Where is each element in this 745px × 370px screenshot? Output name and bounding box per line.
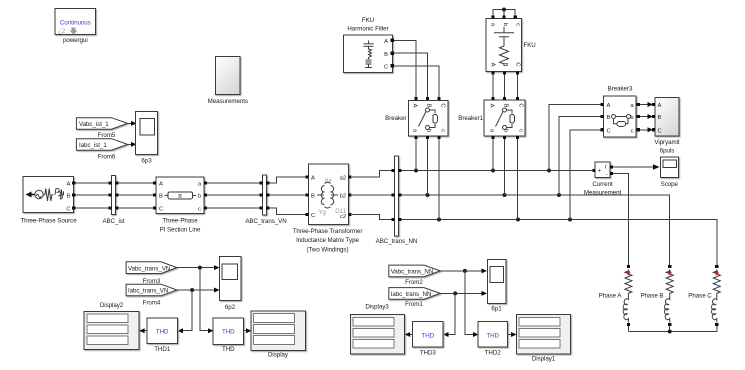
- svg-text:B: B: [384, 52, 388, 58]
- svg-text:Breaker3: Breaker3: [608, 86, 633, 93]
- svg-text:π: π: [178, 193, 182, 200]
- THD1 block: [147, 318, 178, 353]
- svg-text:c: c: [515, 23, 521, 26]
- svg-text:ABC_trans_VN: ABC_trans_VN: [245, 218, 286, 225]
- svg-text:c: c: [440, 129, 446, 132]
- wire From5 to 6p3: [128, 122, 132, 124]
- svg-text:A: A: [490, 63, 496, 67]
- wire A bus to transformer (steps up): [269, 177, 306, 183]
- THD3 block: [413, 322, 443, 357]
- wire row B source to ABC_ist: [75, 194, 110, 196]
- riser row3 to Breaker3 C: [570, 130, 601, 220]
- wire row a PI to ABC_trans_VN: [207, 182, 261, 184]
- svg-text:Inductance Matrix Type: Inductance Matrix Type: [296, 237, 359, 244]
- junction row3 Breaker1 c: [516, 218, 520, 222]
- wire From4 to 6p2: [177, 289, 216, 291]
- wire CM minus to Phase A drop: [613, 174, 628, 265]
- From2 tag Vabc_trans_NN: [389, 265, 440, 286]
- svg-text:Scope: Scope: [661, 181, 679, 188]
- svg-text:C: C: [658, 129, 662, 135]
- svg-text:a2: a2: [340, 176, 346, 182]
- Phase C load branch: [688, 265, 720, 332]
- svg-text:Measurement: Measurement: [584, 190, 622, 197]
- svg-text:A: A: [412, 104, 418, 108]
- svg-text:Breaker: Breaker: [385, 115, 406, 122]
- svg-text:Three-Phase Source: Three-Phase Source: [20, 218, 77, 225]
- junction neutral at Phase B: [668, 330, 672, 334]
- wire C bus to transformer (steps down): [269, 208, 306, 215]
- svg-text:FKU: FKU: [362, 17, 374, 24]
- svg-text:c: c: [518, 129, 524, 132]
- svg-text:Three-Phase Transformer: Three-Phase Transformer: [293, 228, 363, 235]
- neutral bus wire: [628, 331, 716, 333]
- svg-text:THD1: THD1: [154, 346, 171, 353]
- Current Measurement: [584, 162, 622, 196]
- svg-text:Phase B: Phase B: [640, 293, 663, 300]
- svg-text:Iabc_trans_VN: Iabc_trans_VN: [128, 288, 168, 295]
- wire From1 branch down to THD3: [448, 293, 456, 334]
- scope 6p1: [487, 259, 506, 312]
- wire From3 branch down to THD: [200, 268, 210, 331]
- wire THD3 to Display3: [408, 334, 413, 336]
- svg-text:C: C: [518, 103, 524, 107]
- measurement bus ABC_ist: [102, 176, 124, 226]
- svg-text:b2: b2: [340, 194, 346, 200]
- measurement bus ABC_trans_NN: [376, 156, 418, 245]
- svg-text:Vabc_trans_VN: Vabc_trans_VN: [128, 265, 170, 272]
- svg-text:PI Section Line: PI Section Line: [160, 227, 201, 234]
- wire THD2 to Display1: [508, 334, 513, 336]
- svg-text:A: A: [607, 103, 611, 109]
- svg-text:Yg: Yg: [318, 209, 326, 216]
- svg-text:(Two Windings): (Two Windings): [307, 247, 349, 254]
- svg-text:A: A: [489, 104, 495, 108]
- wire FKU A down to Breaker1 A: [492, 75, 494, 99]
- wire row C ABC_ist to PI line: [118, 207, 155, 209]
- Scope: [660, 157, 678, 188]
- wire a2 to ABC_trans_NN (steps up): [352, 171, 393, 178]
- svg-text:THD: THD: [422, 332, 435, 339]
- scope 6p3: [136, 112, 158, 165]
- junction row1 Breaker1 a: [491, 169, 495, 173]
- svg-text:C: C: [311, 213, 315, 219]
- THD2 block: [478, 322, 508, 357]
- wire From4 branch down to THD1: [182, 290, 192, 331]
- svg-text:From5: From5: [98, 132, 116, 139]
- junction FKU bracket: [502, 8, 506, 12]
- wire row A source to ABC_ist: [75, 182, 110, 184]
- svg-text:Display1: Display1: [532, 356, 556, 363]
- wire FKU B down to Breaker1 B: [504, 75, 506, 99]
- Breaker1: [458, 97, 525, 139]
- svg-text:ABC_ist: ABC_ist: [102, 218, 124, 225]
- svg-text:B: B: [67, 194, 71, 200]
- svg-text:c: c: [198, 207, 201, 213]
- wire Breaker1 c down to row3: [517, 139, 519, 220]
- wire c2 to ABC_trans_NN (steps down): [352, 215, 393, 220]
- wire row b PI to ABC_trans_VN: [207, 194, 261, 196]
- wire Breaker1 b down to row2: [504, 139, 506, 195]
- wire Breaker c down to row3: [438, 139, 440, 220]
- Display2: [84, 302, 139, 349]
- wire THD1 to Display2: [143, 330, 148, 332]
- Measurements subsystem: [208, 57, 248, 106]
- wire row A ABC_ist to PI line: [118, 182, 155, 184]
- Vipryamit 6puls subsystem: [652, 97, 680, 154]
- svg-text:C: C: [515, 62, 521, 66]
- svg-text:c2: c2: [340, 214, 346, 220]
- From5 tag Vabc_ist_1: [76, 118, 127, 139]
- svg-text:From2: From2: [405, 279, 423, 286]
- svg-text:Vabc_trans_NN: Vabc_trans_NN: [391, 269, 434, 276]
- wire From2 to 6p1: [440, 270, 483, 272]
- wire FKU-HF B to Breaker B: [394, 53, 428, 98]
- svg-text:-: -: [606, 172, 608, 179]
- powergui block: [55, 9, 96, 45]
- svg-text:THD: THD: [486, 332, 499, 339]
- svg-text:+: +: [598, 168, 602, 175]
- svg-text:A: A: [658, 103, 662, 109]
- From6 tag Iabc_ist_1: [76, 139, 127, 161]
- Display1: [516, 315, 570, 363]
- wire FKU-HF C to Breaker C: [394, 66, 439, 98]
- svg-text:Iabc_trans_NN: Iabc_trans_NN: [391, 291, 432, 298]
- svg-text:Vabc_ist_1: Vabc_ist_1: [79, 121, 109, 128]
- junction row2 Breaker b: [426, 193, 430, 197]
- svg-text:Vipryamit: Vipryamit: [654, 139, 680, 146]
- junction From1 wire: [453, 291, 457, 295]
- svg-text:C: C: [159, 207, 163, 213]
- svg-text:THD: THD: [222, 346, 235, 353]
- svg-text:C: C: [440, 103, 446, 107]
- wire From2 branch down to THD2: [465, 271, 475, 335]
- svg-text:C: C: [66, 207, 70, 213]
- svg-text:6p1: 6p1: [491, 306, 502, 313]
- svg-text:Continuous: Continuous: [60, 20, 91, 27]
- svg-text:6puls: 6puls: [660, 148, 675, 155]
- svg-text:¿2: ¿2: [58, 28, 66, 35]
- junction row3 Breaker3 riser: [568, 218, 572, 222]
- junction row3 Breaker c: [437, 218, 441, 222]
- svg-text:Measurements: Measurements: [208, 98, 248, 105]
- wire Breaker a down to row1: [415, 139, 417, 171]
- wire Breaker3 c to Vipryamit C: [640, 129, 650, 131]
- svg-text:ABC_trans_NN: ABC_trans_NN: [376, 238, 418, 245]
- junction row2 Breaker3 riser: [557, 193, 561, 197]
- wire row B ABC_ist to PI line: [118, 194, 155, 196]
- svg-text:b: b: [502, 23, 508, 26]
- svg-text:B: B: [426, 104, 432, 108]
- THD block: [213, 318, 243, 353]
- Breaker3: [600, 86, 640, 138]
- svg-text:6p3: 6p3: [141, 158, 152, 165]
- wire row C source to ABC_ist: [75, 207, 110, 209]
- svg-text:B: B: [311, 194, 315, 200]
- svg-text:A: A: [67, 182, 71, 188]
- svg-text:b: b: [198, 194, 201, 200]
- wire Breaker b down to row2: [427, 139, 429, 195]
- svg-text:Breaker1: Breaker1: [458, 115, 483, 122]
- svg-text:THD3: THD3: [420, 350, 437, 357]
- FKU capacitor filter block: [486, 15, 536, 74]
- svg-text:Harmonic Filter: Harmonic Filter: [347, 26, 388, 33]
- Three-Phase Transformer Inductance Matrix Type: [293, 164, 363, 254]
- svg-text:c: c: [631, 129, 634, 135]
- wire Breaker3 a to Vipryamit A: [640, 104, 650, 106]
- svg-text:From4: From4: [143, 300, 161, 307]
- svg-text:THD: THD: [222, 329, 235, 336]
- scope 6p2: [220, 257, 241, 312]
- wire Breaker3 b to Vipryamit B: [640, 116, 650, 118]
- Three-Phase PI Section Line: [153, 177, 207, 234]
- svg-text:Display2: Display2: [100, 302, 124, 309]
- junction From4 wire: [190, 288, 194, 292]
- wire THD to Display: [243, 330, 247, 332]
- svg-text:B: B: [159, 194, 163, 200]
- svg-text:Display: Display: [268, 352, 289, 359]
- From1 tag Iabc_trans_NN: [389, 288, 440, 308]
- svg-text:From1: From1: [405, 301, 423, 308]
- svg-text:B: B: [503, 104, 509, 108]
- svg-text:Phase A: Phase A: [599, 293, 623, 300]
- svg-text:THD: THD: [156, 329, 169, 336]
- wire From3 to 6p2: [177, 267, 216, 269]
- svg-text:B: B: [607, 115, 611, 121]
- svg-text:B: B: [658, 115, 662, 121]
- junction From3 wire: [198, 266, 202, 270]
- wire row c PI to ABC_trans_VN: [207, 207, 261, 209]
- junction row1 Breaker3 riser: [547, 169, 551, 173]
- svg-text:From6: From6: [98, 154, 116, 161]
- wire b2 to ABC_trans_NN: [352, 194, 393, 196]
- svg-text:Three-Phase: Three-Phase: [162, 218, 198, 225]
- Display3: [351, 304, 405, 355]
- riser row2 to Breaker3 B: [559, 117, 601, 196]
- junction row1 Breaker a: [414, 169, 418, 173]
- wire FKU-HF A to Breaker A: [394, 40, 416, 98]
- svg-text:Phase C: Phase C: [688, 293, 712, 300]
- svg-text:FKU: FKU: [524, 42, 536, 49]
- wire FKU C down to Breaker1 C: [517, 75, 519, 99]
- Display: [251, 311, 305, 359]
- measurement bus ABC_trans_VN: [245, 175, 286, 225]
- wire From1 to 6p1: [440, 292, 483, 294]
- Breaker: [385, 97, 448, 139]
- wire From6 to 6p3: [128, 143, 132, 145]
- wire row3 NN bus to Phase C drop: [401, 220, 717, 265]
- svg-text:A: A: [311, 176, 315, 182]
- wire Breaker1 a down to row1: [492, 139, 494, 171]
- Three-Phase Source: [20, 177, 77, 225]
- svg-text:Display3: Display3: [365, 304, 389, 311]
- junction row2 Breaker1 b: [503, 193, 507, 197]
- wire CM i output to Scope: [613, 166, 655, 168]
- svg-text:Iabc_ist_1: Iabc_ist_1: [79, 142, 107, 149]
- From4 tag Iabc_trans_VN: [126, 284, 177, 306]
- FKU block top bracket: [493, 10, 515, 19]
- svg-text:IM: IM: [325, 178, 332, 185]
- svg-text:A: A: [384, 39, 388, 45]
- FKU Harmonic Filter: [344, 17, 394, 73]
- Phase B load branch: [640, 265, 673, 332]
- From3 tag Vabc_trans_VN: [126, 262, 177, 285]
- riser row1 to Breaker3 A: [549, 105, 601, 171]
- wire row2 NN bus to Phase B drop: [401, 195, 670, 265]
- junction From2 wire: [463, 269, 467, 273]
- wire B bus to transformer: [269, 194, 306, 196]
- svg-text:C: C: [607, 129, 611, 135]
- svg-text:powergui: powergui: [63, 37, 88, 44]
- svg-text:6p2: 6p2: [225, 304, 236, 311]
- svg-text:Current: Current: [592, 181, 613, 188]
- svg-text:A: A: [159, 182, 163, 188]
- svg-text:C: C: [384, 64, 388, 70]
- wire row1 NN bus to Current Measurement: [401, 170, 595, 172]
- svg-text:THD2: THD2: [485, 350, 502, 357]
- Phase A load branch: [599, 265, 632, 332]
